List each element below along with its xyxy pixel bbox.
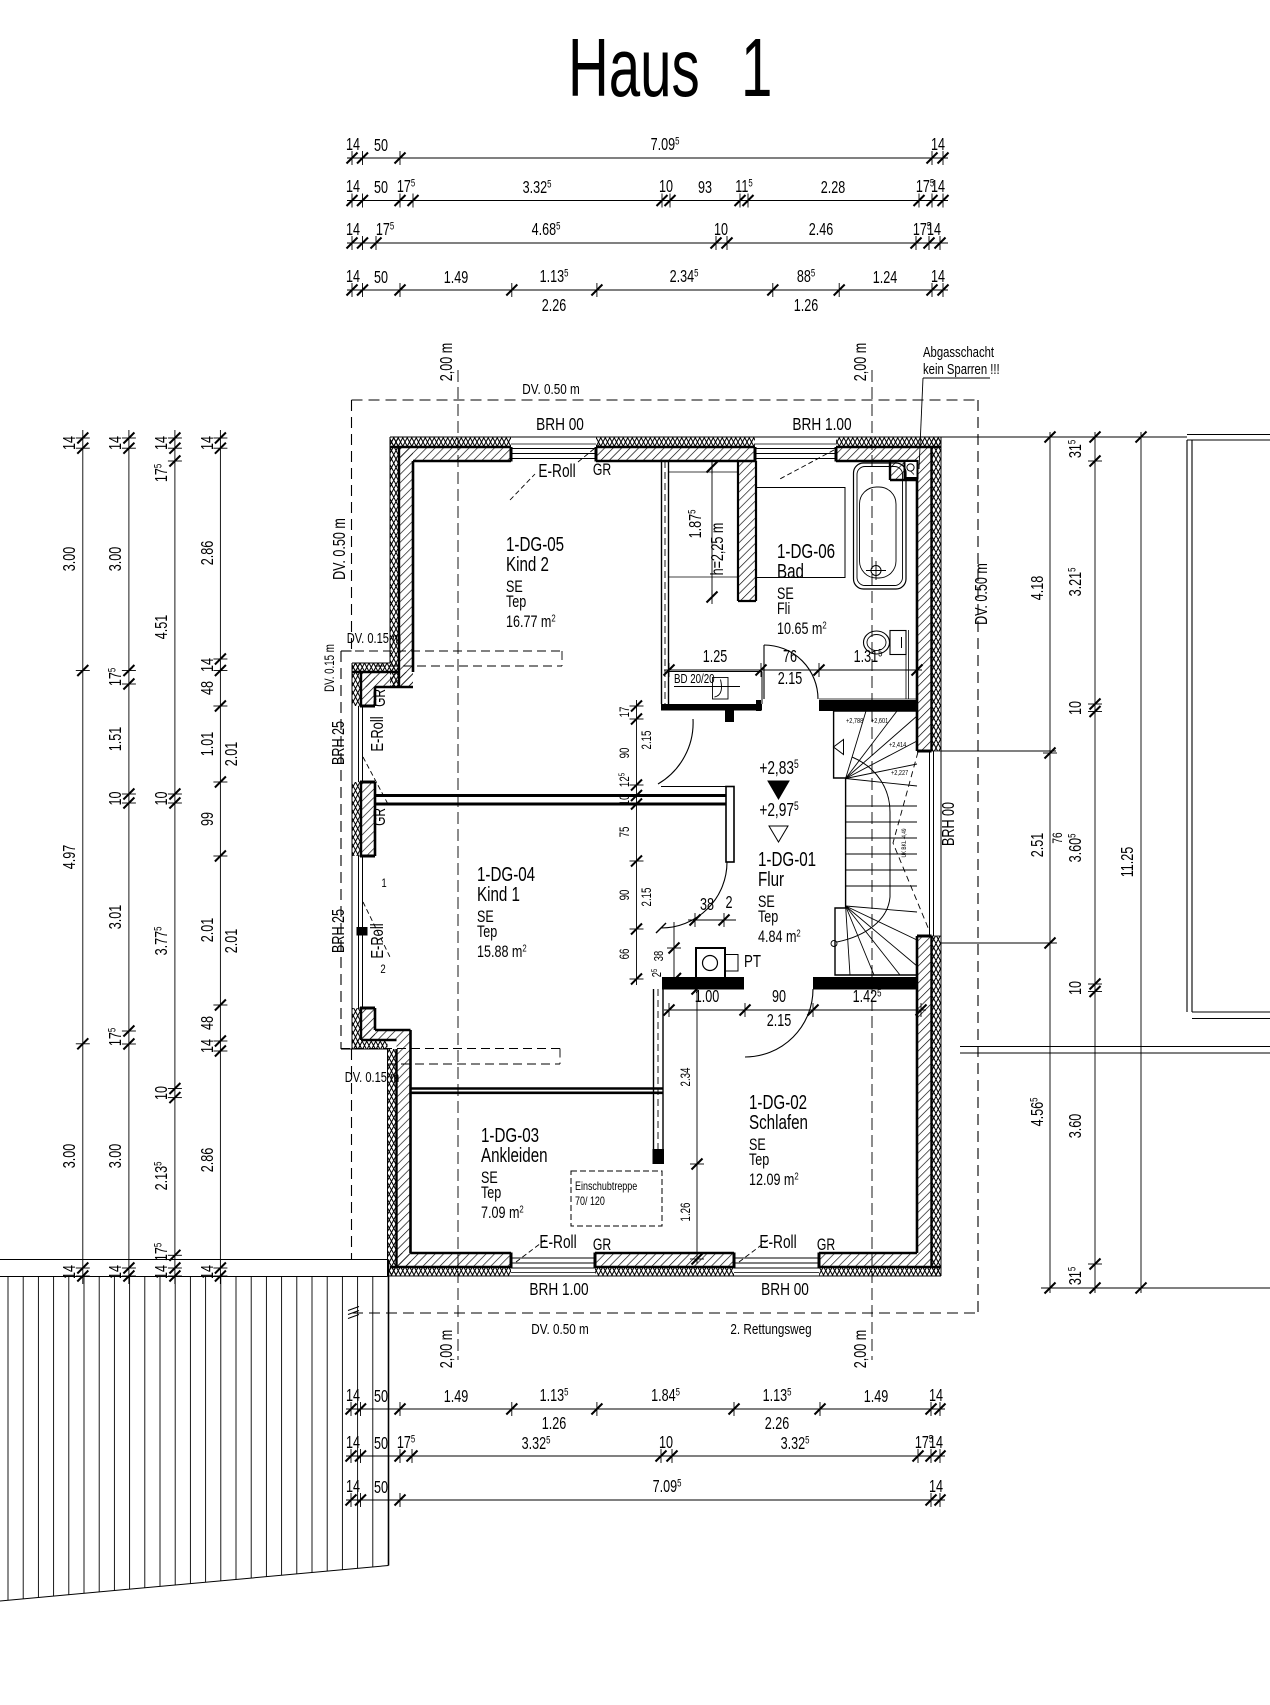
svg-text:1.315: 1.315 (854, 646, 883, 667)
svg-text:Einschubtreppe: Einschubtreppe (575, 1181, 637, 1193)
svg-text:3.775: 3.775 (151, 927, 172, 956)
svg-text:14: 14 (931, 267, 945, 287)
svg-text:3.325: 3.325 (523, 177, 552, 198)
svg-text:17: 17 (618, 707, 633, 718)
svg-text:DV. 0.50 m: DV. 0.50 m (972, 563, 992, 625)
svg-text:4.18: 4.18 (1028, 576, 1048, 601)
svg-text:Kind 2: Kind 2 (506, 553, 549, 576)
svg-text:90: 90 (618, 747, 633, 758)
svg-text:50: 50 (374, 1478, 388, 1498)
svg-text:BRH 1.00: BRH 1.00 (792, 416, 851, 435)
svg-text:Fli: Fli (777, 599, 790, 618)
svg-text:7.095: 7.095 (653, 1476, 682, 1497)
svg-text:10: 10 (618, 794, 633, 805)
svg-text:Tep: Tep (506, 592, 526, 611)
svg-text:2.46: 2.46 (809, 220, 834, 240)
svg-text:10: 10 (152, 791, 172, 805)
svg-text:3.01: 3.01 (106, 905, 126, 930)
svg-text:10: 10 (152, 1086, 172, 1100)
svg-text:3.00: 3.00 (60, 547, 80, 572)
svg-text:1.845: 1.845 (651, 1385, 680, 1406)
svg-text:10: 10 (659, 177, 673, 197)
svg-text:14: 14 (931, 135, 945, 155)
svg-text:14: 14 (346, 220, 360, 240)
svg-text:14: 14 (106, 436, 126, 450)
svg-text:+2,601: +2,601 (871, 717, 889, 725)
svg-text:Ankleiden: Ankleiden (481, 1144, 548, 1167)
svg-text:14: 14 (346, 1386, 360, 1406)
svg-text:1.51: 1.51 (106, 727, 126, 752)
svg-text:Tep: Tep (749, 1150, 769, 1169)
svg-text:Tep: Tep (477, 922, 497, 941)
svg-text:Tep: Tep (758, 907, 778, 926)
svg-text:11.25: 11.25 (1118, 847, 1138, 878)
svg-text:1: 1 (741, 22, 772, 114)
svg-text:BRH 00: BRH 00 (761, 1281, 809, 1300)
svg-text:14: 14 (198, 658, 218, 672)
svg-text:14: 14 (346, 267, 360, 287)
svg-text:DV. 0.50 m: DV. 0.50 m (330, 518, 350, 580)
svg-text:14: 14 (929, 1386, 943, 1406)
svg-text:3.605: 3.605 (1065, 834, 1086, 863)
svg-text:2.135: 2.135 (151, 1162, 172, 1191)
svg-text:2.345: 2.345 (670, 266, 699, 287)
svg-text:38: 38 (700, 895, 714, 915)
svg-text:2.26: 2.26 (542, 296, 567, 316)
svg-text:DV. 0.15 m: DV. 0.15 m (345, 1068, 399, 1085)
svg-text:1.135: 1.135 (540, 266, 569, 287)
svg-text:GR: GR (593, 461, 611, 479)
svg-text:Haus: Haus (568, 22, 700, 114)
svg-text:2.86: 2.86 (198, 541, 218, 566)
svg-text:14: 14 (931, 177, 945, 197)
svg-text:E-Roll: E-Roll (538, 461, 575, 481)
svg-text:48: 48 (198, 1016, 218, 1030)
svg-text:DV. 0.50 m: DV. 0.50 m (531, 1321, 588, 1338)
svg-text:UK BKL -4,49: UK BKL -4,49 (902, 828, 909, 857)
svg-text:38: 38 (653, 951, 667, 961)
svg-text:90: 90 (618, 889, 633, 900)
svg-text:1.01: 1.01 (198, 732, 218, 757)
svg-text:75: 75 (618, 826, 633, 837)
svg-text:2,00 m: 2,00 m (851, 1330, 871, 1368)
svg-text:BRH 25: BRH 25 (329, 909, 349, 953)
svg-text:50: 50 (374, 136, 388, 156)
svg-text:1.26: 1.26 (679, 1202, 694, 1221)
svg-text:2.34: 2.34 (679, 1067, 694, 1086)
svg-text:14: 14 (198, 1039, 218, 1053)
svg-text:50: 50 (374, 178, 388, 198)
svg-text:90: 90 (772, 987, 786, 1007)
svg-text:PT: PT (744, 952, 761, 971)
svg-text:1.49: 1.49 (864, 1387, 889, 1407)
svg-text:3.325: 3.325 (522, 1433, 551, 1454)
svg-text:BRH 00: BRH 00 (939, 802, 959, 846)
svg-text:99: 99 (198, 812, 218, 826)
svg-text:7.09 m2: 7.09 m2 (481, 1203, 524, 1222)
svg-text:50: 50 (374, 1434, 388, 1454)
svg-text:16.77 m2: 16.77 m2 (506, 612, 556, 631)
svg-text:2.86: 2.86 (198, 1148, 218, 1173)
svg-text:1.875: 1.875 (685, 510, 706, 539)
svg-text:76: 76 (783, 647, 797, 667)
svg-text:10: 10 (1066, 701, 1086, 715)
svg-text:48: 48 (198, 681, 218, 695)
svg-text:14: 14 (346, 1477, 360, 1497)
svg-text:10: 10 (714, 220, 728, 240)
svg-text:GR: GR (593, 1236, 611, 1254)
svg-text:1.135: 1.135 (540, 1385, 569, 1406)
svg-text:1.49: 1.49 (444, 1387, 469, 1407)
svg-text:2.01: 2.01 (198, 918, 218, 943)
svg-text:10: 10 (1066, 981, 1086, 995)
svg-text:1.26: 1.26 (542, 1414, 567, 1434)
svg-text:10: 10 (106, 791, 126, 805)
svg-text:14: 14 (929, 1477, 943, 1497)
svg-text:+2,835: +2,835 (759, 758, 799, 778)
svg-text:4.51: 4.51 (152, 615, 172, 640)
svg-text:14: 14 (152, 436, 172, 450)
svg-text:50: 50 (374, 1387, 388, 1407)
svg-text:DV. 0.15 m: DV. 0.15 m (347, 629, 401, 646)
svg-text:Flur: Flur (758, 868, 784, 891)
svg-text:1.25: 1.25 (703, 647, 728, 667)
svg-text:2.15: 2.15 (640, 887, 655, 906)
svg-text:4.84 m2: 4.84 m2 (758, 927, 801, 946)
svg-text:3.00: 3.00 (60, 1144, 80, 1169)
svg-text:2.26: 2.26 (765, 1414, 790, 1434)
svg-text:93: 93 (698, 178, 712, 198)
svg-text:4.97: 4.97 (60, 845, 80, 870)
svg-text:14: 14 (929, 1433, 943, 1453)
svg-text:1.135: 1.135 (763, 1385, 792, 1406)
svg-text:kein Sparren !!!: kein Sparren !!! (923, 361, 1000, 378)
svg-text:14: 14 (927, 220, 941, 240)
svg-text:2. Rettungsweg: 2. Rettungsweg (730, 1321, 811, 1338)
svg-text:+2,414: +2,414 (889, 741, 907, 749)
svg-text:+2,227: +2,227 (891, 769, 909, 777)
svg-text:GR: GR (371, 808, 389, 826)
svg-text:14: 14 (346, 1433, 360, 1453)
svg-text:Schlafen: Schlafen (749, 1111, 808, 1134)
svg-text:2.15: 2.15 (640, 730, 655, 749)
svg-text:BRH 00: BRH 00 (536, 416, 584, 435)
svg-text:h=2,25 m: h=2,25 m (708, 523, 728, 576)
svg-text:DV. 0.50 m: DV. 0.50 m (522, 381, 579, 398)
svg-text:Bad: Bad (777, 560, 804, 583)
svg-text:3.215: 3.215 (1065, 568, 1086, 597)
svg-text:1: 1 (381, 877, 386, 890)
svg-text:+2,975: +2,975 (759, 800, 799, 820)
svg-text:2: 2 (725, 893, 732, 913)
svg-text:GR: GR (371, 689, 389, 707)
svg-text:2.15: 2.15 (767, 1011, 792, 1031)
svg-text:BRH 1.00: BRH 1.00 (529, 1281, 588, 1300)
svg-text:2.28: 2.28 (821, 178, 846, 198)
svg-text:1.00: 1.00 (695, 987, 720, 1007)
svg-text:3.325: 3.325 (781, 1433, 810, 1454)
svg-text:Kind 1: Kind 1 (477, 883, 520, 906)
svg-text:2.01: 2.01 (222, 742, 242, 767)
svg-text:Abgasschacht: Abgasschacht (923, 344, 994, 361)
svg-text:E-Roll: E-Roll (539, 1232, 576, 1252)
svg-text:2,00 m: 2,00 m (437, 1330, 457, 1368)
svg-text:2,00 m: 2,00 m (437, 343, 457, 381)
svg-text:10.65 m2: 10.65 m2 (777, 619, 827, 638)
svg-text:14: 14 (346, 135, 360, 155)
svg-text:14: 14 (346, 177, 360, 197)
svg-text:E-Roll: E-Roll (368, 716, 388, 751)
svg-text:70/ 120: 70/ 120 (575, 1196, 605, 1208)
svg-text:2.51: 2.51 (1028, 833, 1048, 858)
svg-text:4.565: 4.565 (1027, 1098, 1048, 1127)
svg-text:76: 76 (1049, 832, 1065, 843)
svg-text:2.01: 2.01 (222, 929, 242, 954)
svg-text:+2,788: +2,788 (846, 717, 864, 725)
svg-text:14: 14 (198, 436, 218, 450)
svg-text:7.095: 7.095 (651, 134, 680, 155)
svg-text:1.26: 1.26 (794, 296, 819, 316)
svg-text:3.00: 3.00 (106, 1144, 126, 1169)
svg-text:1.425: 1.425 (853, 986, 882, 1007)
svg-text:2: 2 (380, 963, 385, 976)
svg-text:GR: GR (817, 1236, 835, 1254)
svg-text:3.60: 3.60 (1066, 1114, 1086, 1139)
svg-text:66: 66 (618, 948, 633, 959)
svg-text:14: 14 (60, 436, 80, 450)
svg-text:DV. 0.15 m: DV. 0.15 m (323, 644, 338, 692)
svg-text:10: 10 (659, 1433, 673, 1453)
svg-text:1.49: 1.49 (444, 268, 469, 288)
svg-text:12.09 m2: 12.09 m2 (749, 1170, 799, 1189)
svg-text:BRH 25: BRH 25 (329, 721, 349, 765)
svg-text:E-Roll: E-Roll (368, 923, 388, 958)
svg-text:1.24: 1.24 (873, 268, 898, 288)
svg-text:4.685: 4.685 (532, 219, 561, 240)
svg-text:BD 20/20: BD 20/20 (674, 673, 715, 686)
svg-text:3.00: 3.00 (106, 547, 126, 572)
svg-text:2,00 m: 2,00 m (851, 343, 871, 381)
svg-text:2.15: 2.15 (778, 669, 803, 689)
svg-text:15.88 m2: 15.88 m2 (477, 942, 527, 961)
svg-text:50: 50 (374, 268, 388, 288)
svg-text:Tep: Tep (481, 1183, 501, 1202)
